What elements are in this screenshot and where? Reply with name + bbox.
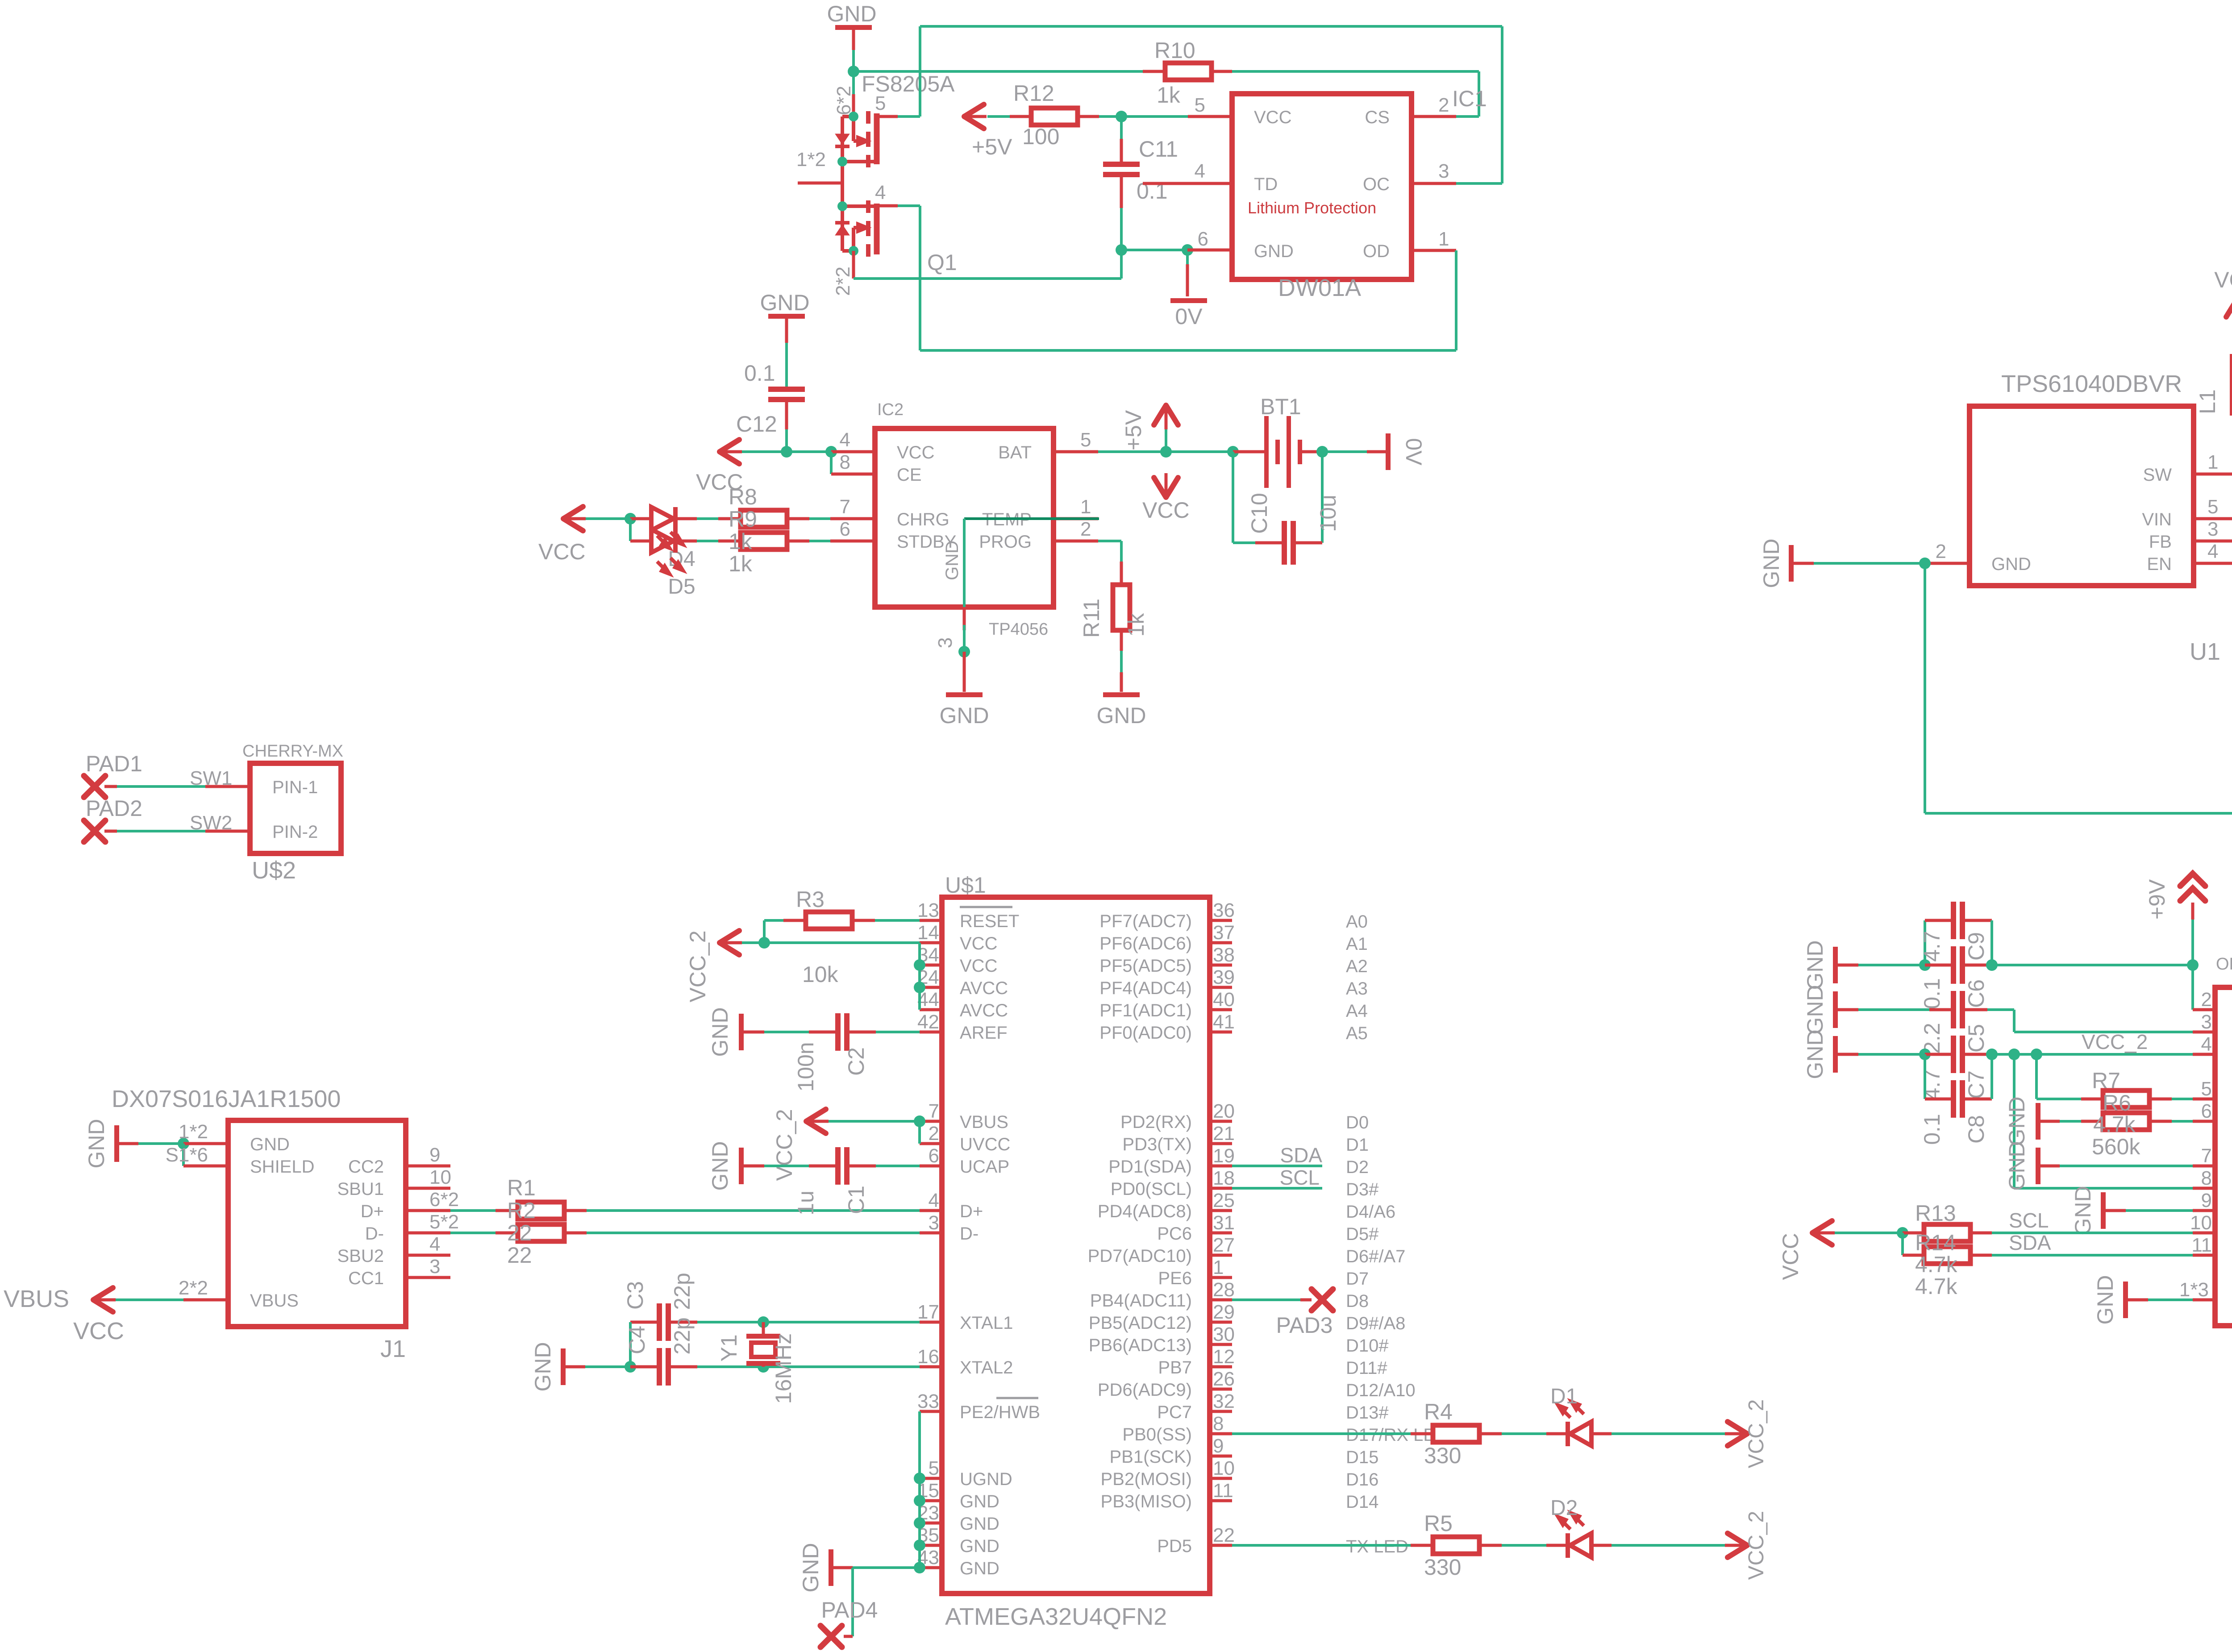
svg-text:6*2: 6*2 <box>429 1189 459 1211</box>
svg-text:PD2(RX): PD2(RX) <box>1120 1112 1192 1132</box>
junction node U1 GND <box>1919 558 1931 569</box>
LED D1 <box>1502 1432 1546 1435</box>
wire GND symbol to junction <box>852 30 855 50</box>
svg-text:D7: D7 <box>1346 1269 1369 1289</box>
LED D1 emit arrows <box>1558 1402 1584 1418</box>
svg-text:3: 3 <box>929 1212 939 1234</box>
svg-text:1k: 1k <box>1124 613 1149 637</box>
wire VCC arrow to IC2 <box>742 450 787 453</box>
IC1 pin 4 TD stub <box>1143 182 1232 185</box>
OLED1 pin 3 VCOMH stub <box>2193 1031 2215 1034</box>
svg-text:VCC: VCC <box>960 934 997 953</box>
capacitor C1 <box>809 1165 836 1168</box>
svg-text:6: 6 <box>929 1145 939 1167</box>
overline for HWB of PE2/HWB <box>996 1397 1038 1399</box>
svg-text:PB3(MISO): PB3(MISO) <box>1101 1492 1192 1511</box>
wire R14 to SDA/MOSI <box>1992 1254 2193 1257</box>
svg-text:PIN-2: PIN-2 <box>272 822 318 842</box>
svg-text:2*2: 2*2 <box>179 1277 208 1299</box>
svg-text:GND: GND <box>708 1141 733 1190</box>
svg-text:1: 1 <box>1438 228 1449 250</box>
IC2 pin 2 PROG stub <box>1054 540 1098 543</box>
svg-text:1: 1 <box>1213 1257 1224 1278</box>
svg-text:DW01A: DW01A <box>1278 275 1361 301</box>
svg-text:D-: D- <box>365 1224 384 1244</box>
svg-text:0.1: 0.1 <box>744 361 775 386</box>
svg-text:PF4(ADC4): PF4(ADC4) <box>1099 978 1192 998</box>
svg-text:4.7k: 4.7k <box>2093 1112 2136 1137</box>
svg-text:A1: A1 <box>1346 934 1368 954</box>
svg-text:19: 19 <box>1213 1145 1235 1167</box>
OLED1 box <box>2215 987 2232 1326</box>
svg-text:5: 5 <box>1080 429 1091 451</box>
wire D- from J1 to R2 <box>450 1232 496 1234</box>
resistor R11 <box>1120 562 1123 585</box>
svg-text:VCC_2: VCC_2 <box>685 930 710 1002</box>
U$1 pin 41 PF0(ADC0) stub <box>1210 1031 1232 1034</box>
wire D4 cathode to R8 <box>676 517 697 520</box>
U$1 pin 5 UGND stub <box>920 1477 942 1480</box>
svg-text:32: 32 <box>1213 1390 1235 1412</box>
wire junction to VCC pin junction <box>787 450 831 453</box>
svg-text:GND: GND <box>827 1 876 26</box>
svg-text:IC1: IC1 <box>1452 86 1487 111</box>
resistor R14 <box>1903 1254 1924 1257</box>
svg-text:5: 5 <box>2201 1078 2212 1100</box>
U$1 pin 25 PD4(ADC8) stub <box>1210 1209 1232 1212</box>
svg-text:PC7: PC7 <box>1157 1402 1192 1422</box>
wire battery left to C10 <box>1232 452 1234 543</box>
svg-text:R9: R9 <box>729 507 757 532</box>
U1 pin 2 GND stub <box>1925 562 1970 565</box>
U$1 pin 31 PC6 stub <box>1210 1232 1232 1235</box>
supply VCC down arrow <box>1154 478 1178 497</box>
wire R9 to STDBY <box>809 540 830 542</box>
svg-text:1k: 1k <box>729 551 753 576</box>
supply VCC arrow (IC2 VCC net) <box>720 440 739 464</box>
svg-text:GND: GND <box>939 703 989 728</box>
svg-text:SDA: SDA <box>1280 1144 1322 1167</box>
svg-text:10u: 10u <box>1316 495 1341 532</box>
svg-text:6: 6 <box>1198 228 1208 250</box>
IC2 pin 8 CE stub <box>831 473 875 476</box>
svg-text:PD4(ADC8): PD4(ADC8) <box>1098 1202 1192 1221</box>
svg-text:AREF: AREF <box>960 1023 1008 1043</box>
svg-text:GND: GND <box>1803 1029 1828 1079</box>
svg-text:D2: D2 <box>1550 1496 1578 1520</box>
svg-text:GND: GND <box>1759 538 1784 588</box>
U$2 pin PIN-1 stub <box>205 785 250 788</box>
wire D1 to VCC_2 arrow <box>1612 1432 1725 1435</box>
LED D4 emit arrows <box>657 532 683 548</box>
wire D2 to VCC_2 arrow <box>1612 1544 1725 1547</box>
svg-text:10: 10 <box>1213 1457 1235 1479</box>
U$1 pin 28 PB4(ADC11) stub <box>1210 1298 1232 1302</box>
U$1 pin 30 PB6(ADC13) stub <box>1210 1343 1232 1346</box>
junction node R12/C11/VCC pin <box>1116 111 1127 122</box>
svg-text:560k: 560k <box>2092 1134 2140 1159</box>
OLED1 pin 11 SDA/MOSI stub <box>2193 1254 2215 1257</box>
capacitor C11 <box>1120 117 1123 139</box>
J1 pin 9 CC2 stub <box>406 1165 450 1168</box>
capacitor C7 <box>1925 1053 1951 1056</box>
ground GND at DC (rotated) <box>2101 1192 2106 1229</box>
svg-text:FB: FB <box>2149 532 2172 552</box>
svg-text:A0: A0 <box>1346 912 1368 932</box>
svg-text:3: 3 <box>429 1256 440 1277</box>
wire C3 to crystal junction <box>697 1321 763 1323</box>
svg-text:Lithium Protection: Lithium Protection <box>1248 199 1376 217</box>
U$1 pin 32 PC7 stub <box>1210 1410 1232 1413</box>
svg-text:0V: 0V <box>1175 304 1203 329</box>
IC2 pin 6 STDBY stub <box>830 540 875 543</box>
svg-text:2: 2 <box>2201 989 2212 1011</box>
svg-text:GND: GND <box>530 1342 555 1391</box>
svg-text:330: 330 <box>1424 1555 1461 1580</box>
svg-text:BT1: BT1 <box>1260 394 1301 419</box>
svg-text:C1: C1 <box>844 1186 869 1214</box>
IC1 pin 6 GND stub <box>1187 249 1232 252</box>
junction node XTAL2/Y1 <box>758 1361 769 1373</box>
svg-text:D0: D0 <box>1346 1113 1369 1132</box>
svg-text:GND: GND <box>708 1007 733 1057</box>
svg-text:PB6(ADC13): PB6(ADC13) <box>1089 1336 1192 1355</box>
svg-text:+5V: +5V <box>1121 410 1146 450</box>
svg-text:EN: EN <box>2147 554 2172 574</box>
svg-text:22: 22 <box>507 1220 532 1245</box>
svg-text:C5: C5 <box>1964 1024 1989 1053</box>
X mark PAD2 <box>84 820 105 842</box>
svg-text:PF0(ADC0): PF0(ADC0) <box>1099 1023 1192 1043</box>
svg-text:PF7(ADC7): PF7(ADC7) <box>1099 911 1192 931</box>
svg-text:PF6(ADC6): PF6(ADC6) <box>1099 934 1192 953</box>
svg-text:AVCC: AVCC <box>960 978 1008 998</box>
svg-text:PAD3: PAD3 <box>1276 1313 1333 1338</box>
svg-text:330: 330 <box>1424 1443 1461 1468</box>
wire Q1 pin5 to OC (top long net) <box>920 25 1502 28</box>
svg-text:4: 4 <box>840 429 850 451</box>
svg-text:30: 30 <box>1213 1323 1235 1345</box>
U$1 pin 40 PF1(ADC1) stub <box>1210 1008 1232 1011</box>
svg-text:VIN: VIN <box>2142 510 2172 529</box>
svg-text:UGND: UGND <box>960 1469 1012 1489</box>
ground GND left of U1 (rotated) <box>1814 562 1925 565</box>
svg-text:SCL: SCL <box>2009 1209 2049 1232</box>
junction node J1 GND/SHIELD <box>178 1138 189 1149</box>
svg-text:TP4056: TP4056 <box>989 620 1048 639</box>
svg-text:SW: SW <box>2143 465 2172 485</box>
resistor R13 <box>1903 1232 1924 1235</box>
wire C5 to VCOMH <box>1987 1008 2014 1011</box>
svg-text:28: 28 <box>1213 1279 1235 1301</box>
svg-text:100: 100 <box>1022 124 1059 149</box>
wire R6 to IREF <box>2172 1120 2193 1123</box>
svg-text:GND: GND <box>1803 985 1828 1034</box>
U$1 pin 4 D+ stub <box>920 1209 942 1212</box>
U$1 pin 19 PD1(SDA) stub <box>1210 1165 1232 1168</box>
svg-text:5: 5 <box>929 1457 939 1479</box>
svg-text:6*2: 6*2 <box>833 86 855 115</box>
resistor R10 <box>1165 63 1212 80</box>
svg-text:BAT: BAT <box>998 443 1032 462</box>
wire pin7 to UVCC pin2 <box>918 1121 921 1144</box>
svg-text:GND: GND <box>960 1492 999 1511</box>
U1 pin 3 FB stub <box>2194 540 2232 543</box>
svg-text:VBUS: VBUS <box>960 1112 1008 1132</box>
svg-text:TD: TD <box>1254 175 1278 194</box>
svg-text:J1: J1 <box>380 1336 406 1362</box>
ground GND at U$1 (rotated) <box>829 1549 833 1586</box>
supply VCC_2 arrow at U$1 <box>720 931 739 955</box>
svg-text:R13: R13 <box>1915 1201 1956 1226</box>
U$1 pin 26 PD6(ADC9) stub <box>1210 1388 1232 1391</box>
svg-text:37: 37 <box>1213 922 1235 944</box>
wire OD to Q1 pin4 (bottom long net) <box>1455 250 1457 350</box>
svg-text:100n: 100n <box>793 1042 818 1091</box>
resistor R12 <box>1031 108 1078 125</box>
svg-text:D8: D8 <box>1346 1291 1369 1311</box>
svg-text:PB7: PB7 <box>1158 1358 1192 1377</box>
supply +9V double chevron <box>2180 874 2205 901</box>
J1 pin 4 SBU2 stub <box>406 1254 450 1257</box>
svg-text:PROG: PROG <box>979 532 1032 552</box>
wire C11 bottom to GND pin junction <box>1121 249 1187 251</box>
transistor Q1 dual MOSFET FS8205A <box>798 111 878 257</box>
svg-text:VCC: VCC <box>1142 498 1190 523</box>
overline for RESET pin name <box>960 906 1012 908</box>
U$1 pin 36 PF7(ADC7) stub <box>1210 919 1232 922</box>
svg-text:D5#: D5# <box>1346 1224 1379 1244</box>
wire D5 cathode to R9 <box>676 540 697 543</box>
svg-text:33: 33 <box>917 1390 939 1412</box>
svg-text:VCC_2: VCC_2 <box>1745 1399 1768 1469</box>
wire U1 GND down to R16 <box>1924 563 1926 813</box>
svg-text:VBUS: VBUS <box>4 1286 69 1312</box>
svg-text:Q1: Q1 <box>927 250 957 275</box>
svg-text:PF5(ADC5): PF5(ADC5) <box>1099 956 1192 976</box>
wire VCC_2 to VCC pin 14 <box>742 941 920 944</box>
svg-text:CE: CE <box>897 465 922 485</box>
svg-text:6: 6 <box>840 518 850 540</box>
svg-text:3: 3 <box>1438 160 1449 182</box>
wire battery right to C10 <box>1321 452 1324 543</box>
svg-text:SHIELD: SHIELD <box>250 1157 315 1177</box>
wire GND down to PAD4 <box>851 1568 854 1636</box>
junction node pin7/pin2 <box>914 1115 925 1127</box>
U$1 pin 2 UVCC stub <box>920 1142 942 1145</box>
junction node VCC_2 a <box>2008 1049 2020 1060</box>
U$1 pin 33 PE2/HWB stub <box>920 1410 942 1413</box>
svg-text:3: 3 <box>2201 1011 2212 1033</box>
ground GND at C1 (rotated) <box>739 1148 744 1184</box>
svg-text:7: 7 <box>2201 1145 2212 1167</box>
svg-text:D3#: D3# <box>1346 1180 1379 1199</box>
J1 pin 2*2 VBUS stub <box>183 1298 228 1302</box>
svg-text:4: 4 <box>429 1233 440 1255</box>
svg-text:1*3: 1*3 <box>2179 1279 2209 1301</box>
U$1 pin 18 PD0(SCL) stub <box>1210 1187 1232 1190</box>
J1 pin 6*2 D+ stub <box>406 1209 450 1212</box>
supply +5V up arrow <box>1154 405 1178 425</box>
OLED1 pin 10 SCK/SCL stub <box>2193 1232 2215 1235</box>
svg-text:VCC: VCC <box>2214 267 2232 292</box>
svg-text:42: 42 <box>917 1011 939 1033</box>
svg-text:C11: C11 <box>1139 137 1178 162</box>
svg-text:GND: GND <box>960 1559 999 1578</box>
wire +5V stem <box>1165 429 1167 452</box>
X mark PAD3 <box>1312 1289 1333 1311</box>
svg-text:7: 7 <box>840 496 850 518</box>
svg-text:22p: 22p <box>670 1317 695 1354</box>
wire junction to D5 anode <box>629 519 632 541</box>
svg-text:C4: C4 <box>625 1326 650 1354</box>
OLED1 pin 9 DC stub <box>2193 1209 2215 1212</box>
junction node +9V/VPP <box>2187 959 2199 971</box>
svg-text:D14: D14 <box>1346 1492 1378 1512</box>
battery BT1 <box>1233 450 1265 454</box>
U$1 pin 6 UCAP stub <box>920 1165 942 1168</box>
junction node XTAL1/Y1 <box>758 1316 769 1328</box>
junction node C4/GND <box>625 1361 636 1373</box>
svg-text:1: 1 <box>2207 451 2218 473</box>
svg-text:PIN-1: PIN-1 <box>272 778 318 797</box>
svg-text:9: 9 <box>429 1144 440 1166</box>
U$1 pin 42 AREF stub <box>920 1031 942 1034</box>
svg-text:29: 29 <box>1213 1301 1235 1323</box>
wire PD5 to R5 <box>1232 1544 1411 1547</box>
svg-text:OD: OD <box>1363 241 1390 261</box>
svg-text:22: 22 <box>1213 1524 1235 1546</box>
wire GND to C12 <box>785 319 788 343</box>
svg-text:CS: CS <box>1365 108 1390 127</box>
svg-text:38: 38 <box>1213 944 1235 966</box>
svg-text:20: 20 <box>1213 1100 1235 1122</box>
svg-text:C9: C9 <box>1964 932 1989 961</box>
svg-text:13: 13 <box>917 899 939 921</box>
wire TEMP to GND (over symbol) <box>964 517 1099 520</box>
svg-text:4.7k: 4.7k <box>1915 1252 1958 1277</box>
svg-text:GND: GND <box>942 541 962 580</box>
svg-text:XTAL1: XTAL1 <box>960 1313 1013 1333</box>
wire R13 to SCK/SCL <box>1992 1232 2193 1234</box>
svg-text:PF1(ADC1): PF1(ADC1) <box>1099 1001 1192 1020</box>
svg-text:PD5: PD5 <box>1157 1536 1192 1556</box>
wire Q1 pin5 to corner <box>878 115 898 118</box>
svg-text:10k: 10k <box>802 962 839 987</box>
svg-text:C3: C3 <box>623 1281 648 1310</box>
svg-text:R11: R11 <box>1079 599 1104 638</box>
svg-text:2*2: 2*2 <box>832 266 854 296</box>
svg-text:C2: C2 <box>844 1047 869 1076</box>
svg-text:R12: R12 <box>1013 81 1054 106</box>
svg-text:VCC_2: VCC_2 <box>2082 1030 2148 1053</box>
ground GND at C2 (rotated) <box>739 1014 744 1050</box>
svg-text:GND: GND <box>250 1135 290 1154</box>
wire R7 riser from VCC_2 <box>2035 1054 2038 1099</box>
IC2 pin 3 GND stub <box>963 607 966 630</box>
wire R7 to IM1 <box>2172 1098 2193 1100</box>
svg-text:A3: A3 <box>1346 979 1368 999</box>
junction node battery left <box>1227 446 1239 458</box>
wire XTAL1 <box>763 1321 920 1323</box>
capacitor C6 <box>1925 964 1951 967</box>
U$1 pin 14 VCC stub <box>920 941 942 945</box>
svg-text:16: 16 <box>917 1346 939 1368</box>
IC2 TP4056 box <box>875 429 1054 607</box>
junction node C11 bottom <box>1116 244 1127 256</box>
capacitor C8 (looped below) <box>1924 1054 1926 1099</box>
svg-text:PD6(ADC9): PD6(ADC9) <box>1098 1380 1192 1400</box>
IC1 pin 3 OC stub <box>1412 182 1456 185</box>
svg-text:17: 17 <box>917 1301 939 1323</box>
wire junction to IC1 VCC <box>1121 115 1188 118</box>
U$1 pin 43 GND stub <box>920 1566 942 1569</box>
junction node C7 right <box>1986 1049 1998 1060</box>
J1 pin 5*2 D- stub <box>406 1232 450 1235</box>
svg-text:4: 4 <box>1195 160 1205 182</box>
svg-text:R5: R5 <box>1424 1511 1453 1536</box>
junction node VCC_2 b <box>2031 1049 2042 1060</box>
svg-text:0V: 0V <box>1401 438 1426 466</box>
svg-text:C7: C7 <box>1964 1070 1989 1099</box>
wire VPP drop <box>2191 965 2194 1010</box>
LED D5 emit arrows <box>657 558 683 574</box>
svg-text:D+: D+ <box>960 1202 983 1221</box>
U$1 pin 15 GND stub <box>920 1499 942 1502</box>
wire row1 to VPP junction <box>1992 964 2193 966</box>
resistor R3 <box>806 912 852 929</box>
svg-text:PB0(SS): PB0(SS) <box>1122 1425 1192 1444</box>
svg-text:TPS61040DBVR: TPS61040DBVR <box>2001 370 2182 397</box>
svg-text:GND: GND <box>960 1514 999 1534</box>
svg-text:5: 5 <box>1195 94 1205 116</box>
resistor R5 <box>1433 1537 1479 1554</box>
svg-text:R2: R2 <box>507 1198 536 1223</box>
svg-text:GND: GND <box>1096 703 1146 728</box>
J1 pin S1*6 SHIELD stub <box>183 1165 228 1168</box>
svg-text:22: 22 <box>507 1243 532 1268</box>
capacitor C3 <box>630 1321 657 1324</box>
svg-text:7: 7 <box>929 1100 939 1122</box>
svg-text:9: 9 <box>1213 1435 1224 1457</box>
ground GND below IC2 <box>963 652 966 692</box>
wire battery to 0V <box>1322 450 1367 453</box>
svg-text:26: 26 <box>1213 1368 1235 1390</box>
wire D+ from J1 to R1 <box>450 1209 496 1212</box>
svg-text:GND: GND <box>84 1119 109 1168</box>
wire R8 to CHRG <box>809 517 830 520</box>
U$1 pin 23 GND stub <box>920 1522 942 1525</box>
capacitor C4 <box>630 1365 657 1369</box>
svg-text:D16: D16 <box>1346 1470 1378 1490</box>
ground GND row2 (rotated) <box>1833 991 1838 1028</box>
svg-text:A5: A5 <box>1346 1024 1368 1043</box>
svg-text:ATMEGA32U4QFN2: ATMEGA32U4QFN2 <box>945 1603 1167 1630</box>
wire +9V down to OLED <box>2191 903 2195 920</box>
junction node GND/Q1 <box>848 66 859 77</box>
svg-text:PAD1: PAD1 <box>86 751 142 776</box>
svg-text:4: 4 <box>2207 541 2218 562</box>
wire VCC to R13 <box>1835 1232 1903 1234</box>
svg-text:3: 3 <box>934 637 956 648</box>
wire VCC_2 rail to VDD <box>1992 1053 2193 1056</box>
junction node C6 right <box>1986 959 1998 971</box>
resistor R2 <box>518 1224 564 1241</box>
svg-text:4: 4 <box>2201 1033 2212 1055</box>
svg-text:D9#/A8: D9#/A8 <box>1346 1314 1405 1333</box>
ground GND at R6 (rotated bar) <box>2036 1103 2040 1140</box>
U$1 pin 27 PD7(ADC10) stub <box>1210 1254 1232 1257</box>
